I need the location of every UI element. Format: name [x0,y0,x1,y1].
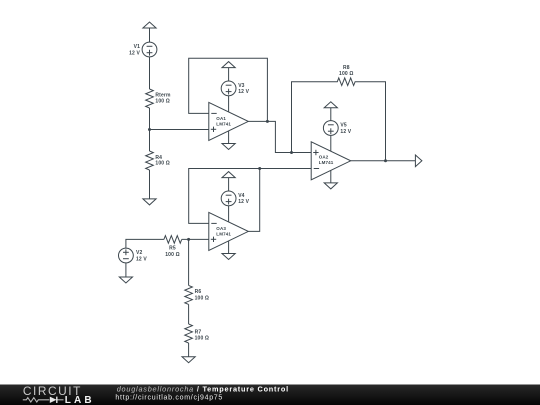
resistor Rterm [146,89,171,108]
node junction [384,159,387,162]
op-amp OA2 LM741 [311,142,351,180]
wire [182,238,209,240]
svg-text:12 V: 12 V [238,199,249,205]
voltage source V2 [119,248,148,263]
resistor R4 [146,151,170,170]
CircuitLab logo [23,384,95,405]
op-amp OA3 LM741 [209,212,249,250]
wire [188,343,190,357]
resistor R5 [164,236,182,258]
wire [149,57,151,89]
wire feedback OA1 [189,58,268,121]
voltage source V4 [221,191,249,206]
svg-text:12 V: 12 V [340,129,351,135]
node junction [290,151,293,154]
svg-text:100 Ω: 100 Ω [195,295,210,301]
resistor R7 [185,324,209,343]
power flag V5 top [324,102,337,108]
wire OA2 output [351,160,416,162]
wire [228,206,230,222]
svg-text:100 Ω: 100 Ω [165,252,180,258]
svg-text:V5: V5 [340,123,346,129]
svg-text:LM741: LM741 [216,232,231,237]
wire [228,131,230,144]
svg-text:V3: V3 [238,83,244,89]
svg-text:100 Ω: 100 Ω [339,71,354,77]
resistor R8 [292,65,386,161]
svg-text:douglasbellonrocha / Temperatu: douglasbellonrocha / Temperature Control [117,384,289,393]
svg-text:OA2: OA2 [319,155,329,160]
svg-text:12 V: 12 V [238,89,249,95]
svg-text:LM741: LM741 [216,122,231,127]
wire [149,28,151,42]
node junction [266,120,269,123]
power flag V3 top [222,62,235,68]
wire [228,178,230,192]
wire V2 to R5 [126,239,164,248]
node junction [258,167,261,170]
footer credit text [115,384,289,401]
wire [228,96,230,112]
svg-text:R5: R5 [169,246,176,252]
svg-text:12 V: 12 V [136,256,147,262]
footer bar [0,385,540,405]
node junction [148,128,151,131]
svg-text:100 Ω: 100 Ω [195,336,210,342]
ground flag below R7 [182,357,195,363]
down flag below OA3 [222,254,235,260]
node junction [187,238,190,241]
svg-text:OA1: OA1 [216,116,226,121]
wire [188,239,190,285]
down flag below OA2 [324,183,337,189]
op-amp OA1 LM741 [209,102,249,140]
wire OA1 output to OA2 plus [248,121,311,152]
svg-text:12 V: 12 V [129,50,140,56]
resistor R6 [185,285,209,304]
wire [330,170,332,183]
voltage source V3 [221,81,249,96]
wire [149,170,151,199]
svg-text:V4: V4 [238,193,244,199]
down flag below OA1 [222,144,235,150]
svg-text:LM741: LM741 [319,160,334,165]
power flag V1 top [143,22,156,28]
svg-text:100 Ω: 100 Ω [155,98,170,104]
wire [330,135,332,151]
svg-text:100 Ω: 100 Ω [155,161,170,167]
wire [149,108,151,151]
wire [125,263,127,277]
wire OA3 output up [248,169,259,232]
wire [228,68,230,82]
svg-text:OA3: OA3 [216,226,226,231]
svg-text:R7: R7 [195,329,202,335]
wire feedback OA3 and to OA2 minus [189,169,312,224]
wire [150,129,209,131]
output terminal flag [415,155,422,167]
svg-text:http://circuitlab.com/cj94p75: http://circuitlab.com/cj94p75 [115,395,223,402]
wire [228,241,230,254]
wire [188,304,190,324]
voltage source V1 [129,42,157,57]
svg-text:V1: V1 [134,44,140,50]
power flag V4 top [222,172,235,178]
voltage source V5 [323,121,351,136]
svg-text:V2: V2 [136,250,142,256]
ground flag below V2 [119,277,132,283]
svg-text:R6: R6 [195,289,202,295]
svg-text:LAB: LAB [65,395,95,405]
wire [330,108,332,121]
ground flag below R4 [143,199,156,205]
svg-text:R8: R8 [343,65,350,71]
